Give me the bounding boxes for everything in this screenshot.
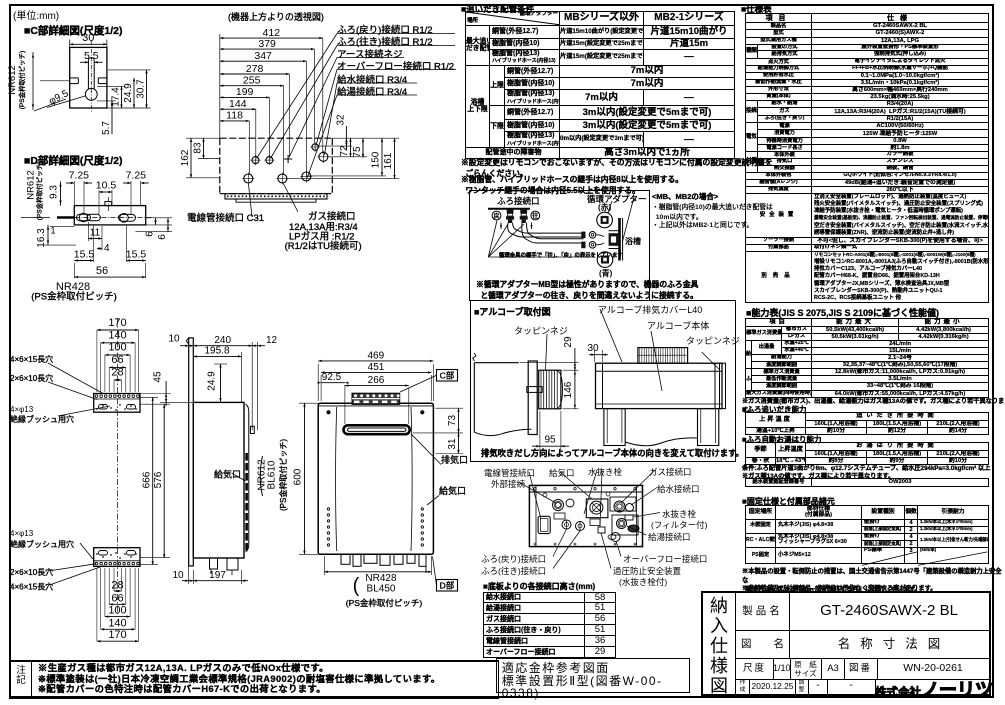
svg-text:666: 666 bbox=[142, 471, 153, 488]
svg-text:(: ( bbox=[353, 575, 360, 597]
svg-text:ふろ(戻り)接続口 R1/2: ふろ(戻り)接続口 R1/2 bbox=[337, 24, 433, 36]
svg-text:10: 10 bbox=[168, 334, 180, 345]
svg-text:1: 1 bbox=[50, 226, 55, 236]
svg-text:83: 83 bbox=[193, 142, 204, 154]
svg-text:100: 100 bbox=[108, 342, 126, 354]
svg-text:170: 170 bbox=[108, 317, 126, 329]
svg-text:NR612: NR612 bbox=[26, 170, 37, 200]
svg-text:255: 255 bbox=[243, 75, 261, 87]
svg-text:24.9: 24.9 bbox=[123, 83, 134, 103]
svg-text:(PS金枠取付ピッチ): (PS金枠取付ピッチ) bbox=[31, 291, 117, 303]
svg-text:電線管接続口 C31: 電線管接続口 C31 bbox=[187, 212, 264, 224]
svg-text:(機器上方よりの透視図): (機器上方よりの透視図) bbox=[228, 11, 324, 22]
svg-text:24.9: 24.9 bbox=[207, 371, 218, 391]
svg-text:278: 278 bbox=[246, 63, 264, 75]
svg-text:150: 150 bbox=[371, 151, 382, 168]
svg-text:11: 11 bbox=[90, 228, 101, 239]
svg-text:12: 12 bbox=[266, 335, 278, 346]
svg-text:5.5: 5.5 bbox=[84, 50, 99, 62]
svg-text:199: 199 bbox=[236, 86, 254, 98]
svg-text:144: 144 bbox=[229, 98, 247, 110]
svg-text:戻: 戻 bbox=[493, 212, 499, 220]
svg-text:28: 28 bbox=[111, 579, 123, 591]
svg-text:140: 140 bbox=[108, 617, 126, 629]
svg-text:C部: C部 bbox=[440, 370, 455, 380]
svg-text:73: 73 bbox=[447, 415, 458, 427]
svg-text:6: 6 bbox=[145, 231, 156, 237]
svg-text:5.7: 5.7 bbox=[101, 121, 112, 135]
svg-text:排気口: 排気口 bbox=[441, 454, 468, 465]
svg-text:600: 600 bbox=[293, 468, 304, 485]
svg-text:30: 30 bbox=[82, 32, 94, 44]
svg-text:347: 347 bbox=[254, 50, 272, 62]
svg-text:6: 6 bbox=[157, 234, 168, 240]
svg-text:29: 29 bbox=[563, 336, 574, 348]
svg-text:95: 95 bbox=[544, 435, 556, 446]
svg-text:2×6×10長穴: 2×6×10長穴 bbox=[10, 567, 53, 577]
svg-text:170: 170 bbox=[108, 629, 126, 641]
svg-text:100: 100 bbox=[108, 605, 126, 617]
svg-text:ふろ(往き)接続口 R1/2: ふろ(往き)接続口 R1/2 bbox=[337, 36, 433, 48]
svg-text:45: 45 bbox=[153, 371, 164, 383]
svg-text:16.3: 16.3 bbox=[36, 228, 47, 248]
svg-text:66: 66 bbox=[111, 592, 123, 604]
svg-text:絶縁ブッシュ用穴: 絶縁ブッシュ用穴 bbox=[10, 414, 74, 424]
svg-text:絶縁ブッシュ用穴: 絶縁ブッシュ用穴 bbox=[10, 539, 74, 549]
svg-text:15.5: 15.5 bbox=[74, 249, 95, 261]
svg-text:92.5: 92.5 bbox=[322, 372, 342, 383]
svg-text:56: 56 bbox=[96, 265, 108, 277]
svg-text:BL450: BL450 bbox=[367, 584, 396, 595]
svg-text:(PS金枠取付ピッチ): (PS金枠取付ピッチ) bbox=[35, 162, 44, 221]
svg-text:給気口: 給気口 bbox=[439, 485, 466, 496]
svg-text:379: 379 bbox=[258, 38, 276, 50]
svg-text:(R1/2はTU接続可): (R1/2はTU接続可) bbox=[285, 240, 362, 252]
svg-text:266: 266 bbox=[368, 375, 385, 386]
svg-text:(PS金枠取付ピッチ): (PS金枠取付ピッチ) bbox=[278, 439, 288, 511]
svg-text:給水接続口 R3/4: 給水接続口 R3/4 bbox=[337, 74, 407, 86]
svg-text:9.3: 9.3 bbox=[49, 185, 60, 199]
svg-text:140: 140 bbox=[108, 330, 126, 342]
svg-text:4×φ13: 4×φ13 bbox=[10, 529, 34, 538]
svg-text:4: 4 bbox=[104, 243, 110, 254]
svg-text:31: 31 bbox=[447, 438, 458, 450]
svg-text:4×6×15長穴: 4×6×15長穴 bbox=[10, 354, 53, 364]
svg-text:(PS金枠取付ピッチ): (PS金枠取付ピッチ) bbox=[17, 51, 26, 110]
svg-text:4×6×15長穴: 4×6×15長穴 bbox=[10, 582, 53, 592]
svg-text:ガス接続口: ガス接続口 bbox=[308, 211, 356, 223]
svg-text:161: 161 bbox=[383, 152, 394, 169]
svg-text:オーバーフロー接続口 R1/2: オーバーフロー接続口 R1/2 bbox=[337, 61, 454, 73]
svg-text:15.5: 15.5 bbox=[126, 249, 147, 261]
svg-text:195.8: 195.8 bbox=[204, 346, 229, 357]
svg-text:66: 66 bbox=[111, 354, 123, 366]
svg-text:28: 28 bbox=[111, 367, 123, 379]
svg-text:240: 240 bbox=[214, 335, 231, 346]
svg-text:75: 75 bbox=[352, 146, 363, 158]
svg-text:469: 469 bbox=[367, 350, 384, 361]
svg-text:NR428: NR428 bbox=[365, 573, 397, 584]
svg-text:118: 118 bbox=[226, 110, 243, 122]
svg-text:146: 146 bbox=[563, 381, 574, 398]
svg-text:10: 10 bbox=[172, 570, 184, 581]
svg-text:2×6×10長穴: 2×6×10長穴 bbox=[10, 373, 53, 383]
svg-text:30: 30 bbox=[587, 343, 599, 354]
svg-text:(PS金枠取付ピッチ): (PS金枠取付ピッチ) bbox=[346, 598, 423, 608]
svg-text:D部: D部 bbox=[440, 580, 455, 590]
svg-text:往: 往 bbox=[532, 212, 538, 220]
svg-text:アース接続ネジ: アース接続ネジ bbox=[337, 49, 402, 61]
svg-text:72: 72 bbox=[339, 145, 350, 157]
svg-text:■C部詳細図(尺度1/2): ■C部詳細図(尺度1/2) bbox=[24, 24, 123, 37]
svg-text:32: 32 bbox=[335, 114, 346, 126]
svg-text:162: 162 bbox=[180, 149, 191, 166]
svg-text:10.5: 10.5 bbox=[96, 180, 117, 192]
svg-text:給湯接続口 R3/4: 給湯接続口 R3/4 bbox=[337, 86, 407, 98]
svg-text:NR612: NR612 bbox=[7, 65, 18, 95]
svg-text:451: 451 bbox=[368, 362, 385, 373]
svg-text:197: 197 bbox=[209, 570, 226, 581]
svg-text:7.25: 7.25 bbox=[69, 170, 90, 182]
svg-text:給気口: 給気口 bbox=[214, 469, 241, 480]
svg-text:BL610: BL610 bbox=[267, 460, 278, 489]
svg-text:7.25: 7.25 bbox=[126, 170, 147, 182]
svg-text:30.7: 30.7 bbox=[136, 79, 147, 99]
svg-text:576: 576 bbox=[153, 471, 164, 488]
svg-text:4×φ13: 4×φ13 bbox=[10, 405, 34, 414]
